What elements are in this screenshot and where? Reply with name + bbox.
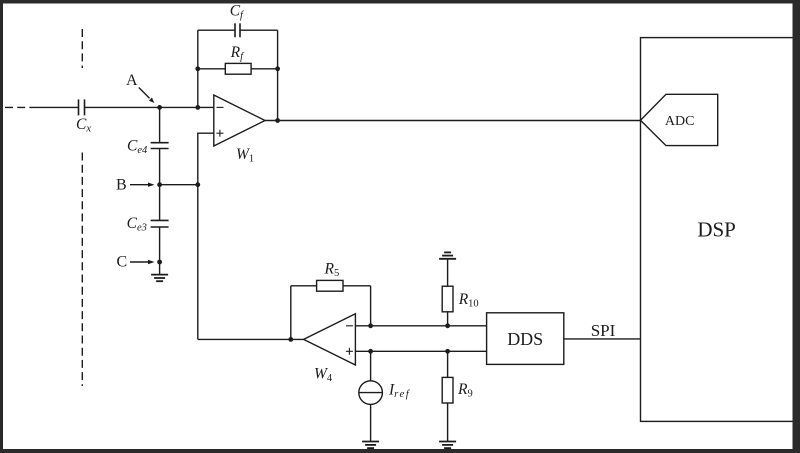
wire: node B to noninverting branch	[160, 184, 198, 186]
wire: W1 noninverting input stub	[198, 133, 214, 339]
wire: shield guard dashed vertical (lower segment)	[81, 153, 83, 387]
resistor R5 with feedback wires	[291, 280, 371, 339]
svg-text:Ce4: Ce4	[127, 138, 148, 157]
svg-text:Rf: Rf	[230, 44, 245, 63]
resistor Rf	[198, 63, 278, 74]
junction dot at R5 tap	[288, 337, 293, 342]
capacitor Ce4	[151, 143, 169, 149]
DDS block	[487, 313, 564, 365]
svg-text:Iref: Iref	[388, 381, 411, 400]
wire: input lead to Cx	[36, 106, 79, 108]
svg-text:SPI: SPI	[591, 321, 616, 340]
ground at node C	[151, 262, 168, 281]
wire: W4 inverting input to DDS	[355, 325, 486, 327]
wire: Ce3 to node C	[159, 227, 161, 262]
wire: W4 noninverting input to DDS	[355, 350, 486, 352]
DSP block	[641, 38, 794, 422]
ADC input port of DSP	[641, 94, 718, 145]
svg-text:DDS: DDS	[507, 329, 543, 349]
svg-text:A: A	[126, 72, 138, 89]
junction dot on noninverting branch	[195, 182, 200, 187]
node C junction dot	[157, 260, 162, 265]
svg-text:R9: R9	[457, 381, 473, 400]
ground above R10	[439, 252, 456, 258]
svg-text:DSP: DSP	[697, 218, 736, 242]
wire: Cx to node A	[85, 106, 160, 108]
resistor R9	[442, 351, 453, 441]
junction dot at W1 inverting input	[195, 105, 200, 110]
arrow pointing to node C	[130, 260, 155, 264]
capacitor Ce3	[151, 220, 169, 227]
arrow pointing to node B	[130, 183, 155, 187]
wire: node A down to Ce4	[159, 107, 161, 142]
feedback right vertical wire	[277, 30, 279, 120]
wire: node B down to Ce3	[159, 185, 161, 221]
wire: input lead dashed	[5, 106, 36, 108]
wire: W1 output to ADC	[265, 120, 641, 122]
svg-text:ADC: ADC	[665, 114, 695, 129]
op-amp W4	[304, 314, 356, 365]
svg-text:Cx: Cx	[76, 116, 91, 135]
wire: shield guard dashed vertical (upper segment)	[81, 29, 83, 68]
junction dot R9 on noninverting wire	[445, 349, 450, 354]
capacitor Cx	[79, 99, 85, 115]
svg-text:B: B	[116, 177, 127, 194]
svg-text:W1: W1	[236, 146, 254, 165]
svg-text:R5: R5	[324, 261, 340, 280]
capacitor Cf	[198, 23, 278, 37]
op-amp W1	[214, 95, 265, 146]
svg-text:W4: W4	[314, 365, 333, 384]
junction dot R10 on inverting wire	[445, 323, 450, 328]
svg-text:C: C	[117, 254, 128, 271]
ground below Iref	[362, 442, 379, 449]
node B junction dot	[157, 182, 162, 187]
resistor R10	[442, 259, 453, 326]
svg-text:R10: R10	[458, 291, 479, 310]
wire: node A to W1 inverting input	[160, 106, 214, 108]
svg-text:Ce3: Ce3	[127, 215, 147, 234]
junction dot at W1 output	[275, 118, 280, 123]
junction dot Iref on noninverting wire	[368, 349, 373, 354]
feedback left vertical wire	[197, 30, 199, 107]
ground below R9	[439, 442, 456, 449]
junction dot at Rf right	[275, 66, 280, 71]
junction dot at Rf left	[195, 66, 200, 71]
junction dot R5 to inverting wire	[368, 323, 373, 328]
wire: SPI bus DDS to DSP	[564, 338, 641, 340]
arrow pointing to node A	[139, 88, 155, 104]
wire: Ce4 to node B	[159, 149, 161, 185]
wire: W4 output to noninverting branch of W1	[198, 338, 304, 340]
node A junction dot	[157, 105, 162, 110]
current source Iref	[359, 351, 383, 441]
svg-text:Cf: Cf	[230, 3, 245, 22]
